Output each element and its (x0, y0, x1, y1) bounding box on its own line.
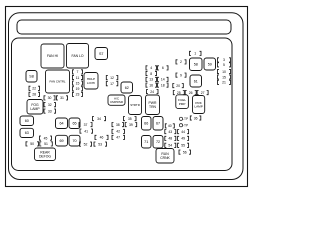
svg-text:54: 54 (168, 144, 172, 148)
svg-text:14: 14 (161, 78, 165, 82)
fuse 24 (147, 90, 159, 94)
svg-text:66: 66 (144, 122, 148, 126)
relay cavity 61 (190, 75, 202, 87)
svg-text:CMPRSR: CMPRSR (110, 100, 124, 104)
fuse 56 (179, 150, 191, 154)
fuse 20 (173, 84, 184, 88)
svg-text:12: 12 (110, 76, 114, 80)
svg-text:1: 1 (194, 52, 196, 56)
svg-text:58: 58 (194, 63, 198, 67)
svg-text:22: 22 (32, 87, 36, 91)
svg-text:-TP: -TP (183, 117, 189, 121)
fuse 2 (176, 60, 186, 64)
relay cavity 71 (142, 136, 152, 149)
svg-text:33: 33 (48, 109, 52, 113)
fuse 19 (73, 87, 83, 91)
svg-text:53: 53 (98, 142, 102, 146)
relay A/C CMPRSR (108, 95, 125, 105)
svg-text:59: 59 (208, 62, 212, 66)
fuse 22 (29, 86, 40, 90)
svg-text:37: 37 (84, 123, 88, 127)
fuse 55 (178, 143, 189, 147)
svg-text:LAMP: LAMP (30, 107, 40, 111)
fuse 54 (165, 143, 176, 147)
relay cavity 65 (69, 118, 80, 129)
relay cavity 64 (56, 118, 68, 129)
fuse 49 (178, 136, 189, 140)
fuse 37 (79, 123, 92, 127)
fuse 45 (40, 136, 52, 140)
svg-text:49: 49 (181, 137, 185, 141)
svg-text:30: 30 (48, 96, 52, 100)
fuse 10 (218, 69, 231, 73)
fuse 32 (44, 103, 56, 107)
svg-text:63: 63 (25, 131, 29, 135)
fuse 44 (178, 130, 189, 134)
svg-text:7: 7 (77, 70, 79, 74)
fuse 21 (218, 80, 231, 84)
outer border frame (6, 7, 248, 187)
fuse 7 (73, 70, 83, 74)
svg-text:28: 28 (32, 93, 36, 97)
relay FUEL PMP (176, 95, 189, 109)
fuse 40 (165, 124, 174, 128)
svg-text:16: 16 (149, 83, 153, 87)
svg-text:17: 17 (110, 82, 114, 86)
svg-text:CRNK: CRNK (160, 156, 170, 160)
svg-text:19: 19 (76, 87, 80, 91)
fuse 28 (29, 92, 40, 96)
svg-text:24: 24 (150, 90, 154, 94)
svg-text:55: 55 (181, 144, 185, 148)
svg-text:FAN HI: FAN HI (47, 54, 58, 58)
fuse 3 (218, 58, 231, 62)
svg-text:2: 2 (180, 60, 182, 64)
fuse 23 (73, 92, 83, 96)
fuse 50 (26, 142, 39, 146)
svg-text:8: 8 (150, 72, 152, 76)
svg-text:40: 40 (168, 124, 172, 128)
svg-text:25: 25 (177, 91, 181, 95)
fuse 33 (44, 109, 56, 113)
fuse 35 (124, 117, 137, 121)
fuse box body outline (9, 13, 244, 180)
fuse 14 (158, 77, 169, 81)
svg-text:51: 51 (44, 142, 48, 146)
fuse 53 (94, 142, 107, 146)
relay cavity 66 (142, 117, 152, 131)
fuse 18 (158, 83, 169, 87)
svg-text:S7: S7 (99, 52, 104, 56)
svg-text:48: 48 (168, 137, 172, 141)
fuse 48 (165, 136, 176, 140)
fuse 27 (197, 91, 208, 95)
svg-text:69: 69 (59, 139, 63, 143)
relay PRK LAMP (193, 96, 205, 114)
svg-text:62: 62 (125, 86, 129, 90)
relay HDLP LO/HI (84, 73, 98, 90)
relay cavity S7 (95, 48, 108, 60)
fuse 52 (80, 142, 92, 146)
svg-text:LAMP: LAMP (194, 105, 202, 109)
svg-text:21: 21 (222, 81, 226, 85)
relay cavity 63 (20, 128, 34, 137)
fuse 25 (173, 91, 184, 95)
relay cavity 62 (121, 82, 133, 93)
svg-text:13: 13 (149, 78, 153, 82)
fuse 51 (40, 142, 53, 146)
top connector slot (17, 20, 231, 34)
relay REAR DEFOG (35, 148, 56, 161)
svg-text:52: 52 (84, 142, 88, 146)
fuse 31 (57, 96, 68, 100)
svg-text:45: 45 (44, 136, 48, 140)
svg-text:-TP: -TP (183, 124, 189, 128)
relay RUN CRNK (156, 149, 174, 164)
fuse 6 (158, 66, 169, 70)
svg-text:27: 27 (201, 91, 205, 95)
relay cavity 58 (190, 58, 203, 71)
relay cavity 70 (69, 135, 80, 146)
svg-text:STRTR: STRTR (130, 103, 140, 107)
svg-text:72: 72 (156, 140, 160, 144)
relay cavity 67 (153, 117, 163, 131)
svg-text:6: 6 (162, 66, 164, 70)
svg-text:41: 41 (84, 129, 88, 133)
inner fuse panel outline (12, 38, 233, 171)
svg-text:32: 32 (48, 103, 52, 107)
svg-text:FAN CNTRL: FAN CNTRL (49, 80, 65, 84)
svg-text:42: 42 (116, 130, 120, 134)
svg-text:S8: S8 (29, 75, 34, 79)
relay STRTR (129, 96, 142, 115)
fuse 39 (125, 123, 137, 127)
svg-text:4: 4 (150, 66, 152, 70)
svg-text:35: 35 (128, 117, 132, 121)
svg-text:10: 10 (222, 70, 226, 74)
svg-text:50: 50 (30, 142, 34, 146)
svg-text:47: 47 (116, 136, 120, 140)
svg-text:44: 44 (181, 130, 185, 134)
fuse 34 (93, 117, 106, 121)
svg-text:PMP: PMP (179, 102, 186, 106)
fuse 38 (112, 123, 124, 127)
svg-text:65: 65 (72, 122, 76, 126)
fuse 41 (80, 129, 93, 133)
fuse 12 (106, 76, 118, 80)
test point TP1 (179, 117, 189, 121)
svg-text:15: 15 (76, 81, 80, 85)
fuse 16 (146, 83, 157, 87)
svg-text:38: 38 (116, 123, 120, 127)
relay FAN LO (67, 44, 89, 69)
fuse 26 (185, 91, 196, 95)
fuse 13 (146, 77, 157, 81)
svg-text:18: 18 (161, 83, 165, 87)
svg-text:70: 70 (72, 139, 76, 143)
svg-text:20: 20 (176, 84, 180, 88)
fuse 15b (218, 75, 231, 79)
fuse 30 (44, 96, 55, 100)
fuse 43 (165, 130, 176, 134)
svg-text:9: 9 (180, 73, 182, 77)
relay cavity 69 (56, 135, 68, 146)
svg-text:3: 3 (223, 58, 225, 62)
fuse 17 (106, 82, 118, 86)
fuse 42 (112, 129, 125, 133)
fuse 15 (73, 81, 83, 85)
svg-text:LO/HI: LO/HI (87, 81, 95, 85)
fuse 9 (176, 73, 186, 77)
svg-text:26: 26 (189, 91, 193, 95)
svg-text:46: 46 (100, 136, 104, 140)
svg-text:56: 56 (183, 150, 187, 154)
svg-text:5: 5 (223, 63, 225, 67)
svg-text:FAN LO: FAN LO (71, 54, 83, 58)
relay PWR TRN (146, 95, 160, 115)
svg-text:64: 64 (59, 122, 63, 126)
relay FAN HI (41, 44, 64, 68)
svg-text:71: 71 (144, 140, 148, 144)
fuse 4 (146, 66, 157, 70)
svg-text:34: 34 (97, 117, 101, 121)
fuse 46 (95, 135, 108, 139)
fuse 47 (112, 135, 125, 139)
fuse 36 (190, 116, 201, 120)
relay FAN CNTRL (46, 70, 70, 93)
fuse 8 (146, 71, 157, 75)
svg-text:11: 11 (76, 76, 80, 80)
relay cavity S8 (26, 71, 37, 83)
svg-text:67: 67 (156, 122, 160, 126)
svg-text:61: 61 (194, 79, 198, 83)
svg-text:60: 60 (25, 119, 29, 123)
relay FOG LAMP (27, 100, 43, 115)
svg-text:36: 36 (194, 116, 198, 120)
svg-text:15: 15 (222, 75, 226, 79)
svg-text:TRN: TRN (149, 105, 157, 109)
fuse 1 (190, 51, 202, 55)
relay cavity 60 (20, 116, 34, 126)
fuse 5 (218, 63, 231, 67)
test point TP2 (179, 124, 189, 128)
svg-text:31: 31 (60, 96, 64, 100)
svg-text:23: 23 (76, 93, 80, 97)
relay cavity 59 (204, 58, 216, 70)
fuse 11 (73, 75, 83, 79)
svg-text:43: 43 (168, 130, 172, 134)
svg-text:DEFOG: DEFOG (39, 154, 51, 158)
relay cavity 72 (153, 136, 163, 149)
svg-text:39: 39 (129, 123, 133, 127)
